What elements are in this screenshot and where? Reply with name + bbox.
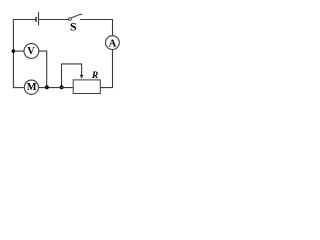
svg-text:S: S [70,20,77,34]
switch S pivot circle [69,18,72,21]
wire: voltmeter left lead [13,50,24,52]
node: junction dot at slider tap [60,85,64,89]
node: junction dot voltmeter-motor [45,85,49,89]
battery B1 short thick plate (negative) [35,17,37,22]
wire: battery to switch [39,19,69,21]
ammeter U1 circle [106,36,120,50]
wire: top-left segment from left corner to battery [13,19,35,21]
voltmeter U2 circle [24,44,39,59]
wire: ammeter down to bottom-right corner and left to resistor [100,49,112,87]
wire: voltmeter right lead and down to junction [39,51,47,88]
wire: motor to bottom-left corner [13,87,24,89]
battery B1 long thin plate (positive) [38,12,40,25]
svg-text:V: V [27,46,35,57]
svg-text:R: R [91,71,98,81]
wire: rheostat slider loop from junction up and over [62,64,82,88]
svg-text:A: A [109,38,117,49]
wire: bottom segment from resistor to motor [39,87,74,89]
rheostat slider arrowhead [80,75,84,79]
wire: switch to top-right corner, down to ammeter [80,20,112,36]
node: junction dot voltmeter left tap [12,49,16,53]
svg-text:M: M [27,82,37,93]
resistor R box [73,80,100,94]
motor M circle [24,80,38,94]
switch S blade (open) [71,14,82,18]
background [0,0,125,107]
wire: left side vertical [12,19,14,88]
